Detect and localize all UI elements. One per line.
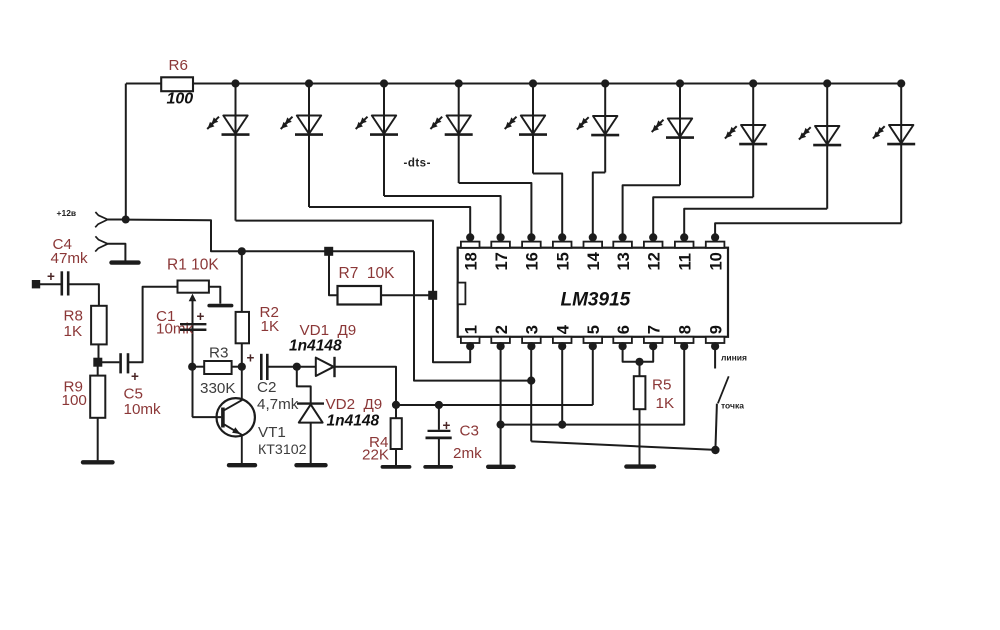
svg-text:18: 18	[462, 252, 480, 270]
pin 8 node	[680, 342, 688, 350]
svg-text:VD2 Д9: VD2 Д9	[326, 396, 383, 413]
wire LED HL9 cathode to pin 11	[684, 209, 827, 237]
pin number 7	[645, 325, 663, 334]
pin 18 box	[461, 242, 480, 248]
resistor R6	[161, 77, 193, 91]
pin 18 node	[466, 233, 474, 241]
pin 3 box	[522, 337, 541, 343]
pin 10 node	[711, 233, 719, 241]
svg-text:10: 10	[707, 252, 725, 270]
pin 2 node	[497, 342, 505, 350]
pin number 8	[676, 325, 694, 334]
svg-text:9: 9	[707, 325, 725, 334]
LED HL7	[652, 79, 694, 185]
svg-text:4,7mk: 4,7mk	[257, 396, 299, 413]
label 1K of R8	[64, 323, 83, 340]
svg-text:330K: 330K	[200, 380, 235, 397]
potentiometer R1	[178, 281, 209, 293]
label 4,7mk	[257, 396, 299, 413]
svg-text:100: 100	[62, 392, 87, 409]
svg-text:5: 5	[585, 325, 603, 334]
input connector arrow lower	[95, 236, 108, 251]
pin number 6	[615, 325, 633, 334]
label 22K	[362, 447, 389, 464]
wire +12V feed	[126, 220, 414, 252]
pin 4 node	[558, 342, 566, 350]
wire terminal to C4	[40, 283, 61, 285]
node C2/VD1/VD2 junction	[293, 363, 301, 371]
pin 8 box	[675, 337, 694, 343]
pin 14 node	[589, 233, 597, 241]
wire LED HL1 cathode to pin 1	[236, 221, 471, 363]
pin 1 box	[461, 337, 480, 343]
svg-text:R6: R6	[169, 57, 188, 74]
pin 14 box	[584, 242, 603, 248]
ground of C3	[425, 465, 451, 469]
diode VD1	[297, 357, 335, 377]
pin 10 box	[706, 242, 725, 248]
wire switch to node	[715, 404, 717, 450]
wire R1 right terminal to ground	[209, 287, 220, 304]
wire junction to C5	[98, 361, 120, 363]
pin 9 box	[706, 337, 725, 343]
pin 16 box	[522, 242, 541, 248]
svg-text:1n4148: 1n4148	[289, 338, 342, 355]
svg-text:линия: линия	[721, 353, 747, 363]
pin number 16	[524, 252, 542, 270]
svg-text:14: 14	[585, 251, 603, 270]
wire LED HL8 cathode to pin 12	[653, 197, 753, 236]
input terminal square	[32, 280, 40, 288]
capacitor C1	[180, 324, 206, 330]
wire LED HL3 cathode to pin 17	[384, 196, 501, 236]
pin 3 node	[527, 342, 535, 350]
label -dts-	[404, 158, 431, 170]
plus of C5	[131, 369, 139, 384]
LED HL1	[207, 79, 249, 220]
pin number 9	[707, 325, 725, 334]
svg-text:-dts-: -dts-	[404, 158, 431, 170]
capacitor C5	[121, 353, 128, 373]
svg-text:13: 13	[615, 252, 633, 270]
svg-text:16: 16	[524, 252, 542, 270]
plus of C3	[443, 418, 451, 433]
LED HL2	[281, 79, 323, 207]
svg-text:1K: 1K	[656, 395, 675, 412]
wire pin 3 drop	[530, 346, 532, 441]
pin number 13	[615, 252, 633, 270]
pin number 11	[676, 253, 694, 270]
wire LED HL6 cathode to pin 14	[593, 173, 605, 237]
wire left supply drop	[125, 84, 127, 220]
IC U1 LM3915 body	[458, 248, 728, 337]
label LM3915	[561, 290, 631, 311]
pin 6 box	[613, 337, 632, 343]
svg-text:+: +	[47, 269, 55, 284]
LED HL10	[873, 79, 915, 223]
label линия	[721, 353, 747, 363]
svg-text:+: +	[443, 418, 451, 433]
svg-text:C3: C3	[460, 423, 479, 440]
label 1n4148 of VD2	[327, 413, 380, 430]
pin 13 node	[619, 233, 627, 241]
pin 9 node	[711, 342, 719, 350]
pin number 1	[462, 325, 480, 334]
wire VD1 to R4 node	[335, 367, 397, 405]
resistor R9	[90, 362, 105, 460]
ground of R1 right terminal	[209, 304, 231, 308]
label R2	[260, 304, 279, 321]
node base/R3 junction	[188, 363, 196, 371]
svg-text:11: 11	[676, 253, 694, 270]
label R1 10K	[167, 257, 219, 274]
LED HL6	[577, 79, 619, 172]
svg-text:8: 8	[676, 325, 694, 334]
svg-text:1K: 1K	[261, 318, 280, 335]
pin number 5	[585, 325, 603, 334]
LED HL8	[725, 79, 767, 197]
pin number 17	[493, 252, 511, 270]
pin number 18	[462, 252, 480, 270]
pin number 14	[585, 251, 603, 270]
pin number 15	[554, 252, 572, 270]
wire LED HL7 cathode to pin 13	[623, 185, 680, 236]
pin 4 box	[553, 337, 572, 343]
label 100 of R9	[62, 392, 87, 409]
svg-text:R1 10K: R1 10K	[167, 257, 219, 274]
pin 7 box	[644, 337, 663, 343]
svg-text:C2: C2	[257, 379, 276, 396]
label R7 10K	[339, 265, 396, 282]
label 330K	[200, 380, 235, 397]
ground of VD2	[297, 463, 326, 467]
wire R8 to junction	[98, 344, 100, 362]
svg-text:6: 6	[615, 325, 633, 334]
resistor R7	[329, 251, 433, 304]
label 2mk	[453, 445, 482, 462]
label 10mk of C5	[124, 401, 162, 418]
label C1	[156, 308, 175, 325]
svg-text:R8: R8	[64, 308, 83, 325]
label KT3102	[258, 442, 307, 458]
plus of C2	[247, 351, 255, 366]
pin 16 node	[527, 233, 535, 241]
node pin4 junction	[558, 421, 566, 429]
pin 15 box	[553, 242, 572, 248]
node +12V junction	[122, 216, 130, 224]
wire pin 8 to pin 2	[501, 346, 685, 424]
svg-text:3: 3	[524, 325, 542, 334]
pin 5 node	[589, 342, 597, 350]
node C3 junction	[435, 401, 443, 409]
LED HL4	[430, 79, 472, 183]
svg-text:C5: C5	[124, 386, 143, 403]
ground of R9	[83, 460, 113, 464]
svg-text:VD1 Д9: VD1 Д9	[300, 322, 357, 339]
svg-text:17: 17	[493, 252, 511, 270]
label 1n4148 of VD1	[289, 338, 342, 355]
wire C4 to R8	[68, 284, 99, 306]
label точка	[721, 401, 744, 411]
label 1K of R2	[261, 318, 280, 335]
switch SA1 arm	[718, 376, 729, 403]
svg-text:22K: 22K	[362, 447, 389, 464]
node collector/C2 junction	[238, 363, 246, 371]
wire top supply rail right segment	[193, 83, 903, 85]
label VT1	[258, 424, 286, 441]
node R8/R9/C5 junction	[93, 358, 102, 367]
capacitor C2	[261, 354, 267, 380]
wire LED HL4 cathode to pin 16	[459, 183, 532, 236]
wiper arrow of R1	[189, 294, 197, 418]
pin 6 node	[619, 342, 627, 350]
svg-text:4: 4	[554, 324, 572, 334]
label C4	[53, 236, 72, 253]
pin 13 box	[613, 242, 632, 248]
LED HL3	[356, 79, 398, 196]
svg-text:2: 2	[493, 325, 511, 334]
ground of R4	[383, 465, 410, 469]
pin 11 box	[675, 242, 694, 248]
label R3	[209, 345, 228, 362]
svg-text:R7 10K: R7 10K	[339, 265, 396, 282]
node R5 top junction	[635, 358, 643, 366]
node pin2/pin8 junction	[497, 421, 505, 429]
resistor R2	[236, 251, 249, 366]
label 1K of R5	[656, 395, 675, 412]
LED HL9	[799, 79, 841, 208]
wire top supply rail left segment	[126, 83, 161, 85]
label VD2 Д9	[326, 396, 383, 413]
svg-text:1: 1	[462, 325, 480, 334]
node R4 top junction	[392, 401, 400, 409]
svg-text:VT1: VT1	[258, 424, 286, 441]
node switch junction	[711, 446, 719, 454]
transistor VT1	[192, 367, 255, 464]
capacitor C4	[62, 271, 68, 295]
wire LED HL10 cathode to pin 10	[715, 223, 901, 236]
wire +12V to pin 3	[414, 251, 531, 380]
wire input arrow to junction	[108, 219, 126, 221]
svg-text:10mk: 10mk	[124, 401, 162, 418]
label R5	[652, 377, 671, 394]
svg-text:точка: точка	[721, 401, 744, 411]
plus of C4	[47, 269, 55, 284]
pin 7 node	[649, 342, 657, 350]
pin 12 node	[649, 233, 657, 241]
pin 17 node	[497, 233, 505, 241]
resistor R8	[91, 306, 107, 345]
resistor R4	[391, 405, 402, 465]
wire VD2 branch	[297, 367, 311, 404]
node pin3 junction	[527, 377, 535, 385]
label R8	[64, 308, 83, 325]
LED HL5	[505, 79, 547, 173]
svg-text:+: +	[247, 351, 255, 366]
pin number 4	[554, 324, 572, 334]
svg-text:КТ3102: КТ3102	[258, 442, 307, 458]
svg-text:15: 15	[554, 252, 572, 270]
label VD1 Д9	[300, 322, 357, 339]
node R7 left junction	[324, 247, 333, 256]
ground of pin 2	[488, 465, 513, 469]
pin 15 node	[558, 233, 566, 241]
wire pin 9 stub	[714, 346, 716, 368]
plus of C1	[197, 309, 205, 324]
ground of R5	[626, 464, 654, 468]
input connector arrow upper	[95, 212, 108, 227]
svg-text:+: +	[197, 309, 205, 324]
svg-text:12: 12	[645, 252, 663, 270]
node R2 top junction	[238, 247, 246, 255]
pin 1 node	[466, 342, 474, 350]
label 47mk	[51, 250, 89, 267]
svg-text:1K: 1K	[64, 323, 83, 340]
node R7 right junction	[428, 291, 437, 300]
label C3	[460, 423, 479, 440]
svg-text:R3: R3	[209, 345, 228, 362]
wire LED HL2 cathode to pin 18	[309, 207, 470, 236]
pin 2 box	[491, 337, 510, 343]
label +12в	[57, 208, 77, 218]
wire pin 2 to ground	[500, 346, 502, 464]
svg-text:+: +	[131, 369, 139, 384]
wire pin 4	[561, 346, 563, 424]
pin number 3	[524, 325, 542, 334]
svg-text:100: 100	[167, 91, 194, 108]
pin number 12	[645, 252, 663, 270]
wire pin 3 to dot-mode switch	[531, 441, 715, 450]
svg-text:7: 7	[645, 325, 663, 334]
resistor R3	[192, 361, 242, 374]
value 100 of R6	[167, 91, 194, 108]
wire LED HL5 cathode to pin 15	[533, 174, 562, 237]
svg-text:1n4148: 1n4148	[327, 413, 380, 430]
resistor R5	[634, 362, 646, 465]
wire pin5 line	[396, 404, 593, 406]
pin 11 node	[680, 233, 688, 241]
label 10mk of C1	[156, 321, 194, 338]
pin 5 box	[584, 337, 603, 343]
label C5	[124, 386, 143, 403]
wire C2 to VD1 node	[267, 366, 297, 368]
wire pins 6-7 bridge	[623, 346, 654, 361]
label C2	[257, 379, 276, 396]
IC index notch	[458, 283, 466, 305]
svg-text:LM3915: LM3915	[561, 290, 631, 311]
pin number 10	[707, 252, 725, 270]
wire C5 to R1 left terminal	[128, 287, 178, 362]
wire pin 5 drop	[592, 346, 594, 405]
capacitor C3	[426, 405, 452, 465]
ground of VT1 emitter	[229, 463, 255, 467]
pin 12 box	[644, 242, 663, 248]
svg-text:R5: R5	[652, 377, 671, 394]
label R9	[64, 379, 83, 396]
pin number 2	[493, 325, 511, 334]
label R4	[369, 434, 388, 451]
label R6	[169, 57, 188, 74]
wire lower input to ground	[108, 244, 126, 261]
svg-text:+12в: +12в	[57, 208, 77, 218]
ground of lower input	[112, 260, 139, 264]
pin 17 box	[491, 242, 510, 248]
svg-text:47mk: 47mk	[51, 250, 89, 267]
diode VD2	[297, 404, 324, 464]
svg-text:2mk: 2mk	[453, 445, 482, 462]
